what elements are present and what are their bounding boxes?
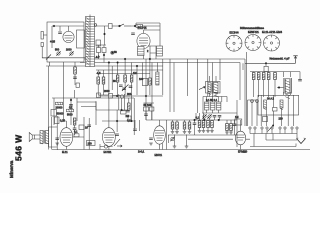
svg-text:ECH11: ECH11 [104, 151, 112, 154]
power section left rail [240, 52, 247, 126]
dots bus y96 [116, 95, 118, 97]
junction dots RF [108, 62, 110, 64]
tuning arrow 2 [122, 85, 128, 92]
svg-text:4·25: 4·25 [50, 41, 56, 44]
resistor R19 [207, 121, 210, 128]
svg-text:500: 500 [55, 49, 60, 52]
capacitor C16 [193, 123, 197, 124]
svg-text:5000: 5000 [67, 114, 73, 117]
capacitor D4 [218, 116, 222, 117]
svg-text:2000: 2000 [104, 90, 110, 93]
switch S1 arm [120, 24, 132, 26]
wire left-mid [52, 66, 75, 150]
power bus y63 [245, 62, 296, 64]
tube socket C [264, 35, 280, 51]
resistor R23 [252, 73, 255, 80]
chevron serifs [297, 137, 306, 140]
mains arrow [293, 56, 297, 64]
resistor R22 [230, 124, 233, 131]
wire bus y73.5 [96, 73, 150, 75]
wire det cluster [144, 103, 155, 120]
wire antenna run [42, 57, 98, 59]
svg-text:150: 150 [88, 143, 93, 146]
screen box V2 [138, 47, 145, 56]
svg-text:EL11·AZ11·EM4: EL11·AZ11·EM4 [262, 31, 283, 34]
capacitor C10 [73, 128, 77, 129]
wire power top [250, 63, 300, 71]
wire bus y121 [102, 120, 134, 122]
wire verticals right-mid [170, 59, 237, 147]
svg-text:a b: a b [96, 56, 100, 59]
resistor R28 [128, 103, 131, 110]
resistor R9 [149, 78, 152, 85]
wire to V2 [131, 25, 160, 27]
wire inside box top [52, 26, 84, 48]
wire EL top link [64, 121, 67, 125]
wire coil top to chain [90, 15, 108, 27]
wire bus y62.5 [80, 62, 240, 64]
padder box [109, 24, 113, 29]
fuse circle 2 [256, 100, 259, 103]
node tap [104, 33, 106, 35]
svg-text:ECH4: ECH4 [230, 32, 240, 35]
coupling circle [94, 24, 97, 27]
wire V2 down [144, 46, 157, 59]
component box right of V3 [74, 134, 79, 137]
wire bus y135 [168, 134, 237, 136]
wire v5 left cap [149, 138, 153, 139]
IF transformer T2 [206, 76, 221, 97]
detector cluster box [144, 107, 149, 111]
resistor R3 [136, 25, 143, 28]
resistor R21 [226, 124, 229, 131]
resistor R25 [262, 73, 265, 80]
resistor R13 [171, 122, 174, 129]
decoupling box [51, 110, 57, 117]
wire trimmers down [196, 76, 220, 120]
wire cluster top [52, 98, 134, 125]
grid cap C5 [131, 33, 135, 34]
svg-text:2M: 2M [126, 115, 129, 118]
resistor R5 [102, 77, 105, 84]
capacitor C22 [144, 114, 148, 115]
range box beside coil [96, 40, 101, 46]
svg-text:220: 220 [243, 151, 248, 154]
capacitor C7 [129, 86, 133, 87]
node power bus [265, 63, 267, 65]
wire bus y59 [84, 58, 245, 60]
svg-text:20000: 20000 [56, 107, 64, 110]
capacitor C9 [69, 105, 73, 106]
wires row B [167, 120, 195, 150]
tuning arrow 3 [114, 139, 120, 146]
trimmer C3 [69, 51, 73, 55]
tube V5 EBF11 [154, 120, 166, 150]
svg-text:ECH4: ECH4 [138, 26, 147, 30]
svg-text:2: 2 [147, 50, 149, 53]
tube V4 EF [103, 98, 116, 150]
wire bottom connections [100, 143, 163, 149]
tuning arrow [46, 55, 51, 60]
wire link left y106.5 [81, 102, 96, 110]
electrolytic box [263, 117, 268, 122]
resistor R6 [116, 75, 119, 82]
capacitor C8 [122, 88, 126, 89]
phones jack [100, 145, 113, 148]
capacitor C11 [55, 138, 59, 139]
capacitor D3 [213, 116, 217, 117]
RF bottom box 2 [109, 94, 113, 99]
output transformer T1 [44, 131, 49, 145]
antenna terminal box [41, 32, 43, 40]
tube V1 mixer circle [63, 31, 74, 42]
coupling box EL [55, 117, 60, 124]
IF coil L2 [156, 72, 159, 85]
resistor R4 [97, 77, 100, 84]
svg-text:EBF11: EBF11 [155, 154, 163, 157]
RF bottom jack [120, 95, 123, 98]
oscillator coil stack L1 [86, 17, 95, 67]
capacitor C4 [73, 77, 77, 78]
svg-text:EBF11: EBF11 [248, 31, 260, 34]
tube socket B [245, 35, 261, 51]
stub right margin [299, 72, 301, 79]
cap C12 [87, 125, 91, 126]
node cluster top [70, 99, 72, 101]
cathode box V4 [87, 141, 96, 146]
capacitor block box [264, 66, 268, 71]
capacitor C17 [233, 124, 237, 125]
wire chain [112, 25, 119, 27]
ground G1 [55, 143, 59, 145]
svg-text:546 W: 546 W [14, 134, 24, 161]
wire V2 bottom frame [150, 46, 160, 59]
wires row C [200, 113, 213, 131]
switch block under coil 2 [102, 48, 106, 53]
dots bus y120 [204, 119, 206, 121]
svg-text:50 100: 50 100 [144, 104, 152, 107]
grounds row C [198, 131, 202, 133]
speaker coil L3 [40, 131, 43, 145]
wire V3 right [72, 117, 84, 150]
wire bus y70 [96, 69, 163, 71]
wire speaker [35, 127, 58, 147]
tube V6 EM4 [235, 120, 245, 150]
wire antenna link [43, 34, 47, 36]
svg-text:220: 220 [279, 118, 284, 121]
svg-text:1M: 1M [235, 116, 238, 119]
power transformer T3 [277, 78, 292, 99]
svg-text:50000: 50000 [57, 113, 65, 116]
resistor R10 [56, 102, 63, 105]
wire V1 top [68, 26, 70, 31]
resistor R16 [188, 122, 191, 129]
switch S1 [119, 25, 121, 27]
mains chevron arrow [297, 139, 306, 144]
wire bus y96 [98, 95, 163, 97]
node T3 [278, 87, 280, 89]
svg-text:0,1: 0,1 [74, 131, 78, 134]
selector arrow [268, 125, 274, 132]
grounds row B [171, 132, 175, 134]
tube V1 grid lines [65, 36, 73, 41]
cap C14 [115, 134, 119, 135]
trimmer C2 [56, 51, 60, 55]
wire r28 [128, 98, 130, 111]
tube socket A [226, 35, 242, 51]
component cluster mid boxes [128, 116, 131, 120]
svg-text:1M: 1M [133, 72, 136, 75]
speaker cone [29, 133, 34, 142]
wire bus y66 [46, 65, 163, 67]
gnd v5 [149, 143, 153, 145]
wires through block [261, 95, 293, 126]
wire verticals to EBF [135, 59, 152, 131]
osc coil box [157, 46, 163, 56]
wire under coil [97, 45, 107, 63]
trimmer under EBF [170, 137, 174, 141]
wire bus y110 [96, 109, 128, 111]
wire cluster v4 [117, 94, 134, 135]
resistor R2 [76, 83, 79, 87]
trimmer D1 [202, 114, 206, 118]
svg-text:2000: 2000 [66, 49, 72, 52]
coupling cap C1 [58, 32, 62, 33]
resistor R18 [202, 121, 205, 128]
wire left col [48, 66, 50, 150]
svg-text:Minerva: Minerva [9, 160, 14, 178]
wire tap down [104, 26, 106, 45]
resistor R11 [67, 109, 74, 112]
svg-text:2×0,1: 2×0,1 [138, 151, 145, 154]
resistor R20 [211, 121, 214, 128]
resistor R27 [274, 73, 277, 80]
wire power bottom [250, 144, 296, 147]
resistor R7 [124, 75, 127, 82]
svg-text:10: 10 [85, 127, 88, 130]
svg-text:0,5: 0,5 [97, 72, 101, 75]
svg-text:300: 300 [127, 93, 132, 96]
ground under row B [173, 146, 177, 148]
svg-text:50: 50 [114, 51, 117, 54]
bandswitch box [77, 30, 85, 48]
choke L4 [264, 100, 267, 110]
wire cluster D [202, 59, 237, 113]
cluster D boxes [205, 102, 221, 110]
input band filter box [47, 22, 84, 62]
grounds row E [225, 132, 229, 134]
arrow bottom [117, 145, 122, 147]
small box inside block [273, 108, 278, 112]
svg-text:Netzanschl. 4 µF: Netzanschl. 4 µF [270, 58, 290, 61]
resistor R17 [198, 121, 201, 128]
wire rowB to bus [175, 135, 187, 147]
tube V3 EL11 [60, 125, 73, 150]
svg-text:Röhrenanschlüsse: Röhrenanschlüsse [240, 27, 265, 30]
RF bottom box 1 [97, 93, 101, 98]
capacitor C6 [119, 85, 123, 86]
detector cluster box2 [150, 107, 154, 111]
resistor R8 [130, 75, 133, 82]
diag arrow T2 [199, 86, 205, 89]
wire RF bottom [99, 95, 131, 96]
wire box bottom drop [50, 62, 76, 85]
wires transformer [284, 72, 291, 96]
wire V2 frame [136, 23, 160, 53]
voltage selector contacts [249, 127, 298, 147]
component box v4 [121, 111, 126, 114]
capacitor C13 [126, 111, 130, 112]
cap C15 [133, 129, 137, 130]
resistor R14 [176, 122, 179, 129]
pilot dot [112, 52, 114, 54]
trimmer D2 [207, 114, 211, 118]
tube V2 ECH4 [137, 30, 150, 49]
switch block under coil [97, 48, 101, 53]
box right-mid [235, 119, 242, 125]
choke L5 [280, 100, 283, 110]
dots v4 [116, 120, 118, 122]
wire verticals RF section [98, 59, 163, 95]
resistor R26 [267, 73, 270, 80]
wire power mid verticals [248, 100, 258, 126]
wire mid bus y120 [146, 119, 237, 121]
wire bottom bus [52, 149, 310, 151]
wire antenna down [42, 47, 46, 58]
grid box V3 [79, 125, 84, 130]
node dot chain [134, 25, 136, 27]
wire link left y102 [77, 101, 96, 103]
svg-text:EL11: EL11 [62, 151, 68, 154]
box right of RF [142, 79, 147, 86]
svg-text:0,1: 0,1 [196, 117, 200, 120]
resistor R15 [183, 122, 186, 129]
rectifier block box [258, 95, 299, 115]
pilot circle [111, 51, 114, 54]
wires power resistors [254, 72, 275, 97]
node under coil [103, 54, 105, 56]
earth terminal box [41, 43, 43, 47]
resistor R1 [74, 67, 77, 74]
resistor R12 [73, 118, 76, 125]
svg-text:0,1 50 0,1: 0,1 50 0,1 [206, 99, 218, 102]
node input [53, 25, 55, 27]
wire verticals center [89, 101, 96, 150]
fuse circle 1 [251, 100, 254, 103]
heater wire right [188, 138, 250, 140]
svg-text:50: 50 [113, 80, 116, 83]
resistor R24 [257, 73, 260, 80]
cap right margin [298, 80, 302, 81]
ground under row B2 [185, 146, 189, 148]
